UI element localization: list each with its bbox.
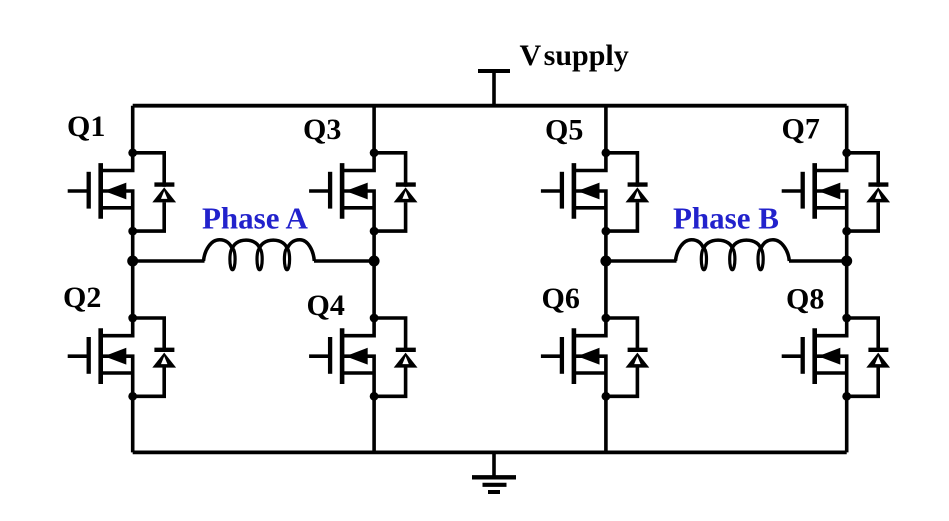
svg-text:Q5: Q5 bbox=[545, 113, 583, 146]
svg-text:Q2: Q2 bbox=[63, 281, 101, 314]
svg-text:Q7: Q7 bbox=[782, 112, 820, 145]
svg-text:Q8: Q8 bbox=[786, 282, 824, 315]
svg-text:Q4: Q4 bbox=[307, 289, 345, 322]
svg-text:Q1: Q1 bbox=[67, 110, 105, 143]
svg-text:Q6: Q6 bbox=[542, 282, 580, 315]
svg-text:Vsupply: Vsupply bbox=[520, 39, 629, 72]
svg-text:Phase B: Phase B bbox=[673, 201, 779, 236]
svg-text:Phase A: Phase A bbox=[202, 201, 309, 236]
svg-text:Q3: Q3 bbox=[303, 113, 341, 146]
